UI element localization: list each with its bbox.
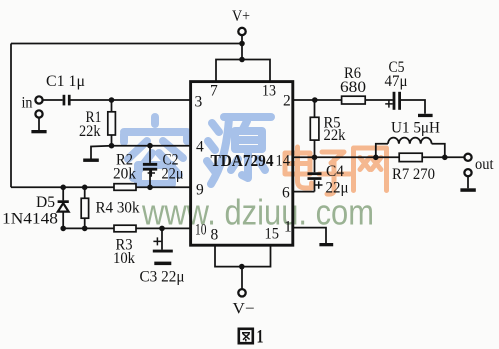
resistor R2 body bbox=[114, 184, 136, 191]
svg-text:10: 10 bbox=[195, 221, 207, 238]
wire bottom supply bracket pins 8,15 bbox=[215, 246, 271, 267]
wire R5 bottom lead bbox=[314, 140, 316, 157]
watermark char 源 (light blue) bbox=[207, 117, 271, 184]
svg-text:1N4148: 1N4148 bbox=[2, 211, 58, 228]
svg-text:15: 15 bbox=[265, 225, 280, 242]
svg-text:www. dziuu. com: www. dziuu. com bbox=[141, 192, 374, 233]
junction dots bbox=[239, 41, 245, 47]
svg-text:4: 4 bbox=[196, 139, 204, 156]
svg-text:22μ: 22μ bbox=[162, 166, 184, 183]
C5 polarity plus bbox=[385, 100, 392, 107]
resistor R3 body bbox=[114, 225, 136, 232]
wire C5 to ground bbox=[401, 100, 425, 114]
svg-text:D5: D5 bbox=[36, 194, 55, 211]
svg-text:47μ: 47μ bbox=[385, 73, 408, 90]
diode D5 cathode bar bbox=[58, 200, 69, 203]
wire V+ stem bbox=[241, 35, 243, 59]
capacitor C4 plates bbox=[308, 172, 322, 175]
wire R1 bottom lead bbox=[111, 135, 113, 146]
svg-text:R4 30k: R4 30k bbox=[96, 200, 140, 217]
svg-text:20k: 20k bbox=[113, 166, 136, 183]
ground bar below in bbox=[31, 130, 46, 133]
wire top supply bracket pins 7,13 bbox=[216, 60, 270, 81]
svg-text:22μ: 22μ bbox=[326, 180, 349, 197]
capacitor C1 plates bbox=[63, 95, 66, 106]
wire left rail bbox=[10, 44, 12, 188]
caption glyph 图 bbox=[239, 329, 253, 343]
resistor R4 body bbox=[81, 198, 88, 218]
terminal out signal bbox=[464, 154, 471, 161]
ground bar after C5 bbox=[418, 114, 433, 117]
svg-text:680: 680 bbox=[340, 79, 366, 96]
wire C3 stem bbox=[161, 228, 163, 249]
svg-text:22k: 22k bbox=[79, 123, 101, 140]
wire C2 top stem bbox=[149, 146, 151, 163]
svg-text:14: 14 bbox=[276, 152, 291, 169]
svg-text:10k: 10k bbox=[113, 250, 135, 267]
wire pin 2 row bbox=[293, 99, 393, 101]
watermark chars 电子网 (light orange) bbox=[285, 147, 387, 194]
resistor R6 body bbox=[342, 96, 366, 104]
wire pin 14 output row bbox=[293, 156, 464, 158]
svg-text:22k: 22k bbox=[324, 127, 346, 144]
svg-text:13: 13 bbox=[262, 82, 276, 99]
inductor L1 coil humps bbox=[388, 138, 432, 144]
WATERMARKS bbox=[124, 117, 387, 233]
resistor R1 body bbox=[108, 112, 116, 135]
wire pin 1 to ground bbox=[293, 228, 326, 243]
svg-text:2: 2 bbox=[283, 92, 291, 109]
terminal V+ bbox=[238, 28, 245, 35]
svg-text:C4: C4 bbox=[326, 163, 344, 180]
svg-text:6: 6 bbox=[282, 185, 290, 202]
svg-text:3: 3 bbox=[195, 93, 203, 110]
capacitor C2 plates bbox=[143, 163, 157, 166]
resistor R7 body bbox=[399, 153, 422, 161]
ground bar at R1 junction bbox=[83, 159, 99, 162]
wire in lower terminal to ground bbox=[38, 118, 40, 130]
svg-text:R7 270: R7 270 bbox=[392, 166, 435, 183]
svg-text:1: 1 bbox=[284, 218, 292, 235]
wire stub to ground at R1 bbox=[91, 146, 112, 159]
watermark char 容 (light blue) bbox=[124, 117, 187, 184]
wire pin 10 row bbox=[63, 227, 190, 229]
wire C1 to pin 3 bbox=[71, 99, 191, 101]
wire R1 top lead bbox=[111, 100, 113, 112]
svg-text:V+: V+ bbox=[232, 8, 250, 25]
ground bar at pin 1 bbox=[319, 243, 333, 246]
C3 polarity plus bbox=[153, 237, 161, 245]
svg-text:C3 22μ: C3 22μ bbox=[140, 269, 185, 286]
svg-text:9: 9 bbox=[196, 181, 204, 198]
wire D5 bottom lead bbox=[62, 212, 64, 229]
wire V- stem bbox=[241, 267, 243, 290]
wire C2 bottom stem bbox=[149, 171, 151, 188]
terminal in ground bbox=[35, 110, 42, 117]
svg-text:in: in bbox=[22, 95, 33, 112]
capacitor C3 plates bbox=[153, 250, 173, 253]
wire top rail V+ to left bbox=[11, 43, 242, 45]
terminal in signal bbox=[35, 96, 42, 103]
svg-text:TDA7294: TDA7294 bbox=[211, 151, 274, 170]
svg-text:8: 8 bbox=[211, 226, 219, 243]
IC U1 TDA7294 body bbox=[191, 82, 293, 246]
wire C4 bottom stem bbox=[314, 180, 316, 192]
wire pin 6 stub bbox=[293, 191, 315, 193]
wire out terminal stem to ground bbox=[467, 176, 469, 188]
wire R4 bottom lead bbox=[84, 218, 86, 228]
wire R5 top lead bbox=[314, 100, 316, 117]
svg-text:7: 7 bbox=[210, 82, 218, 99]
diode D5 triangle bbox=[58, 203, 69, 211]
C2 polarity plus bbox=[148, 169, 155, 176]
resistor R5 body bbox=[310, 117, 319, 140]
wire pin 9 row bbox=[11, 186, 190, 188]
terminal out ground bbox=[464, 169, 471, 176]
svg-text:U1 5μH: U1 5μH bbox=[391, 120, 440, 137]
wire pin 4 row bbox=[112, 145, 191, 147]
wire C4 top stem bbox=[314, 157, 316, 172]
svg-text:C1 1μ: C1 1μ bbox=[46, 73, 85, 90]
wire L1 left bracket bbox=[376, 144, 388, 158]
svg-text:1: 1 bbox=[257, 327, 264, 348]
capacitor C5 plates bbox=[393, 92, 396, 110]
wire input row to C1 bbox=[43, 99, 63, 101]
wire R4 top lead bbox=[84, 187, 86, 198]
C4 polarity plus bbox=[315, 181, 323, 189]
svg-text:out: out bbox=[475, 156, 494, 173]
ground bar below out bbox=[460, 188, 475, 192]
wire D5 top lead bbox=[62, 187, 64, 200]
svg-text:V−: V− bbox=[233, 301, 255, 318]
terminal V- bbox=[238, 289, 245, 296]
wire L1 right bracket bbox=[432, 144, 445, 158]
